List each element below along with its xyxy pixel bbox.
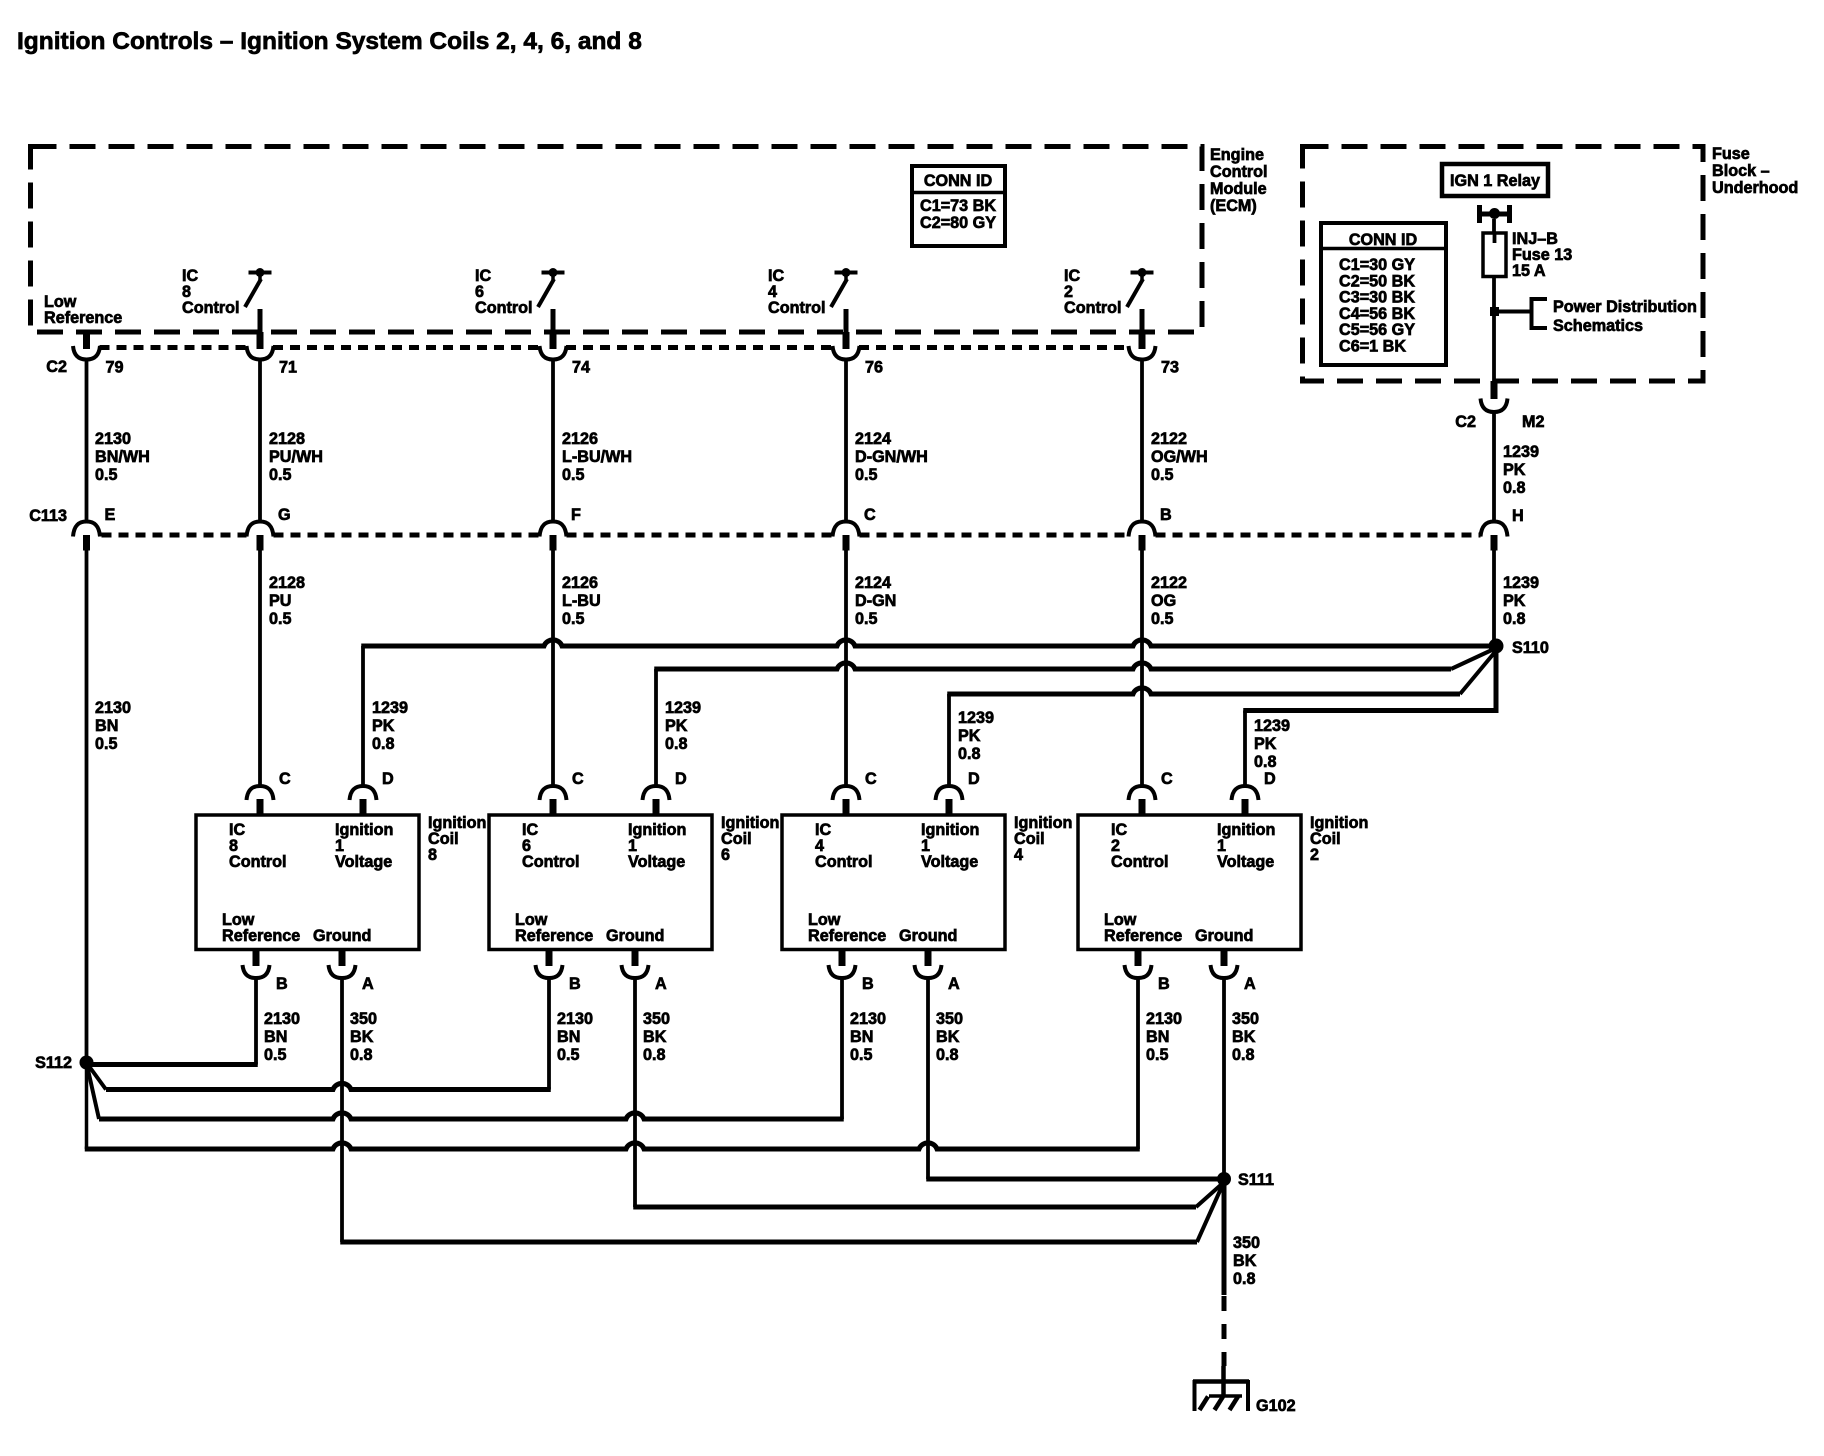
svg-text:2128: 2128 [269,574,305,592]
svg-text:BK: BK [1232,1028,1256,1046]
svg-text:BK: BK [643,1028,667,1046]
svg-text:79: 79 [106,359,124,377]
svg-text:Underhood: Underhood [1712,179,1798,197]
svg-text:D: D [968,770,980,788]
svg-text:Control: Control [182,299,240,317]
svg-text:0.8: 0.8 [1503,610,1526,628]
svg-text:2128: 2128 [269,430,305,448]
svg-text:0.5: 0.5 [855,610,878,628]
svg-text:M2: M2 [1522,413,1545,431]
svg-text:D-GN: D-GN [855,592,896,610]
svg-text:1239: 1239 [1503,443,1539,461]
svg-text:D: D [382,770,394,788]
svg-text:0.5: 0.5 [557,1046,580,1064]
svg-text:H: H [1512,507,1524,525]
svg-text:2130: 2130 [95,699,131,717]
svg-text:0.5: 0.5 [95,466,118,484]
svg-text:0.8: 0.8 [665,735,688,753]
svg-text:D: D [675,770,687,788]
svg-text:Reference: Reference [1104,927,1182,945]
svg-text:A: A [655,975,667,993]
svg-text:1239: 1239 [665,699,701,717]
svg-text:BN: BN [1146,1028,1169,1046]
svg-text:IGN 1 Relay: IGN 1 Relay [1450,172,1540,190]
svg-text:15 A: 15 A [1512,262,1546,280]
svg-text:PU: PU [269,592,292,610]
svg-text:C: C [1161,770,1173,788]
svg-text:0.8: 0.8 [958,745,981,763]
svg-text:A: A [362,975,374,993]
svg-text:8: 8 [428,846,437,864]
svg-text:Voltage: Voltage [921,853,978,871]
svg-text:C6=1 BK: C6=1 BK [1339,338,1406,356]
svg-text:350: 350 [1232,1010,1259,1028]
svg-text:6: 6 [721,846,730,864]
svg-text:G: G [278,506,291,524]
svg-text:L-BU: L-BU [562,592,601,610]
svg-text:0.8: 0.8 [1233,1270,1256,1288]
svg-text:Control: Control [475,299,533,317]
svg-text:Ground: Ground [1195,927,1253,945]
svg-text:PU/WH: PU/WH [269,448,323,466]
svg-text:0.8: 0.8 [1503,479,1526,497]
svg-text:Voltage: Voltage [628,853,685,871]
svg-text:0.5: 0.5 [1146,1046,1169,1064]
svg-text:0.5: 0.5 [1151,610,1174,628]
svg-text:2: 2 [1310,846,1319,864]
svg-text:0.8: 0.8 [372,735,395,753]
svg-text:Reference: Reference [515,927,593,945]
svg-text:4: 4 [1014,846,1023,864]
svg-text:C2: C2 [1455,413,1476,431]
svg-text:Module: Module [1210,180,1267,198]
svg-text:BK: BK [936,1028,960,1046]
svg-text:350: 350 [643,1010,670,1028]
svg-text:A: A [1244,975,1256,993]
svg-text:BN: BN [850,1028,873,1046]
svg-text:OG/WH: OG/WH [1151,448,1208,466]
svg-text:350: 350 [1233,1234,1260,1252]
svg-text:2130: 2130 [557,1010,593,1028]
svg-text:D-GN/WH: D-GN/WH [855,448,928,466]
svg-text:D: D [1264,770,1276,788]
svg-text:BN: BN [264,1028,287,1046]
svg-text:2130: 2130 [264,1010,300,1028]
svg-text:BN: BN [557,1028,580,1046]
svg-text:0.5: 0.5 [95,735,118,753]
svg-text:Control: Control [1210,163,1268,181]
svg-text:0.5: 0.5 [562,610,585,628]
svg-text:1239: 1239 [1254,717,1290,735]
svg-text:BK: BK [1233,1252,1257,1270]
svg-text:2126: 2126 [562,574,598,592]
svg-text:C5=56 GY: C5=56 GY [1339,321,1415,339]
svg-text:S111: S111 [1238,1171,1274,1189]
svg-text:0.5: 0.5 [264,1046,287,1064]
svg-text:Control: Control [815,853,873,871]
svg-text:0.8: 0.8 [1254,753,1277,771]
svg-text:Ground: Ground [313,927,371,945]
svg-text:C3=30 BK: C3=30 BK [1339,289,1415,307]
svg-text:B: B [1158,975,1170,993]
svg-text:Control: Control [1111,853,1169,871]
svg-text:A: A [948,975,960,993]
svg-text:1239: 1239 [372,699,408,717]
svg-text:PK: PK [1254,735,1277,753]
svg-text:350: 350 [936,1010,963,1028]
svg-text:Schematics: Schematics [1553,317,1643,335]
svg-text:C113: C113 [29,507,67,525]
svg-text:L-BU/WH: L-BU/WH [562,448,632,466]
svg-text:0.5: 0.5 [855,466,878,484]
svg-text:BN: BN [95,717,118,735]
svg-text:PK: PK [1503,461,1526,479]
svg-text:CONN ID: CONN ID [924,172,993,190]
svg-text:73: 73 [1161,359,1179,377]
svg-text:2130: 2130 [1146,1010,1182,1028]
svg-text:0.5: 0.5 [562,466,585,484]
svg-text:2122: 2122 [1151,574,1187,592]
svg-text:Control: Control [229,853,287,871]
svg-text:71: 71 [279,359,297,377]
svg-text:0.8: 0.8 [1232,1046,1255,1064]
svg-text:C2: C2 [46,358,67,376]
svg-text:Reference: Reference [222,927,300,945]
svg-text:Ground: Ground [899,927,957,945]
svg-text:1239: 1239 [1503,574,1539,592]
svg-text:B: B [276,975,288,993]
svg-text:S110: S110 [1512,639,1549,657]
svg-text:Fuse: Fuse [1712,145,1750,163]
svg-text:E: E [105,506,116,524]
svg-text:PK: PK [372,717,395,735]
svg-text:350: 350 [350,1010,377,1028]
svg-text:Control: Control [1064,299,1122,317]
svg-text:Reference: Reference [808,927,886,945]
svg-text:2124: 2124 [855,430,891,448]
svg-text:C2=50 BK: C2=50 BK [1339,272,1415,290]
svg-text:Power Distribution: Power Distribution [1553,298,1697,316]
svg-text:2130: 2130 [850,1010,886,1028]
svg-text:Voltage: Voltage [1217,853,1274,871]
svg-text:0.5: 0.5 [850,1046,873,1064]
svg-text:PK: PK [665,717,688,735]
svg-text:C: C [572,770,584,788]
svg-text:2122: 2122 [1151,430,1187,448]
svg-text:C2=80 GY: C2=80 GY [920,214,996,232]
svg-text:2124: 2124 [855,574,891,592]
svg-text:C: C [279,770,291,788]
svg-text:Control: Control [522,853,580,871]
svg-text:Engine: Engine [1210,146,1264,164]
svg-text:PK: PK [958,727,981,745]
svg-text:74: 74 [572,359,590,377]
svg-text:F: F [571,506,581,524]
svg-text:0.5: 0.5 [269,610,292,628]
svg-text:B: B [862,975,874,993]
svg-text:Ground: Ground [606,927,664,945]
svg-text:C1=73 BK: C1=73 BK [920,197,996,215]
svg-text:2130: 2130 [95,430,131,448]
svg-text:C1=30 GY: C1=30 GY [1339,256,1415,274]
svg-text:S112: S112 [35,1054,72,1072]
svg-text:G102: G102 [1256,1397,1296,1415]
svg-text:Ignition Controls – Ignition S: Ignition Controls – Ignition System Coil… [17,28,642,55]
svg-text:B: B [569,975,581,993]
svg-text:C4=56 BK: C4=56 BK [1339,305,1415,323]
svg-text:0.8: 0.8 [936,1046,959,1064]
svg-text:(ECM): (ECM) [1210,197,1257,215]
svg-text:Block –: Block – [1712,162,1770,180]
svg-text:76: 76 [865,359,883,377]
svg-text:2126: 2126 [562,430,598,448]
svg-text:0.5: 0.5 [1151,466,1174,484]
svg-text:Control: Control [768,299,826,317]
svg-text:C: C [864,506,876,524]
svg-text:Reference: Reference [44,309,122,327]
svg-text:C: C [865,770,877,788]
svg-text:0.8: 0.8 [350,1046,373,1064]
svg-text:0.5: 0.5 [269,466,292,484]
svg-text:B: B [1160,506,1172,524]
svg-text:0.8: 0.8 [643,1046,666,1064]
svg-text:1239: 1239 [958,709,994,727]
svg-text:BK: BK [350,1028,374,1046]
svg-text:OG: OG [1151,592,1176,610]
svg-text:PK: PK [1503,592,1526,610]
svg-text:CONN ID: CONN ID [1349,231,1418,249]
svg-text:Voltage: Voltage [335,853,392,871]
svg-text:BN/WH: BN/WH [95,448,150,466]
